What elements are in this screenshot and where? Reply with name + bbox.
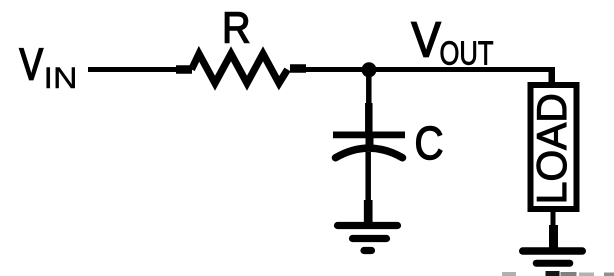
wire from load to ground [551,209,557,248]
capacitor C curved bottom plate [336,148,403,158]
wire from VIN to resistor R [88,67,192,72]
cut-off watermark marks at bottom edge [502,271,614,276]
ground under capacitor [338,226,398,251]
svg-text:V: V [20,40,44,89]
label VIN [20,40,78,95]
load resistor box [531,85,577,209]
svg-text:LOAD: LOAD [528,93,575,204]
wire from capacitor to ground [365,152,371,224]
node junction dot [362,62,377,77]
ground under load [523,251,583,263]
capacitor C top plate [333,132,405,139]
label VOUT [412,13,494,71]
svg-text:R: R [222,4,251,53]
svg-text:C: C [415,117,444,169]
capacitor C inner lead stub [366,135,374,148]
wire corner down to load [549,67,556,85]
svg-text:OUT: OUT [440,34,494,71]
wire from node down to capacitor C [366,70,372,135]
svg-text:V: V [412,13,441,67]
resistor R [192,54,288,83]
wire from resistor to output corner [290,69,555,70]
svg-text:IN: IN [44,62,78,95]
